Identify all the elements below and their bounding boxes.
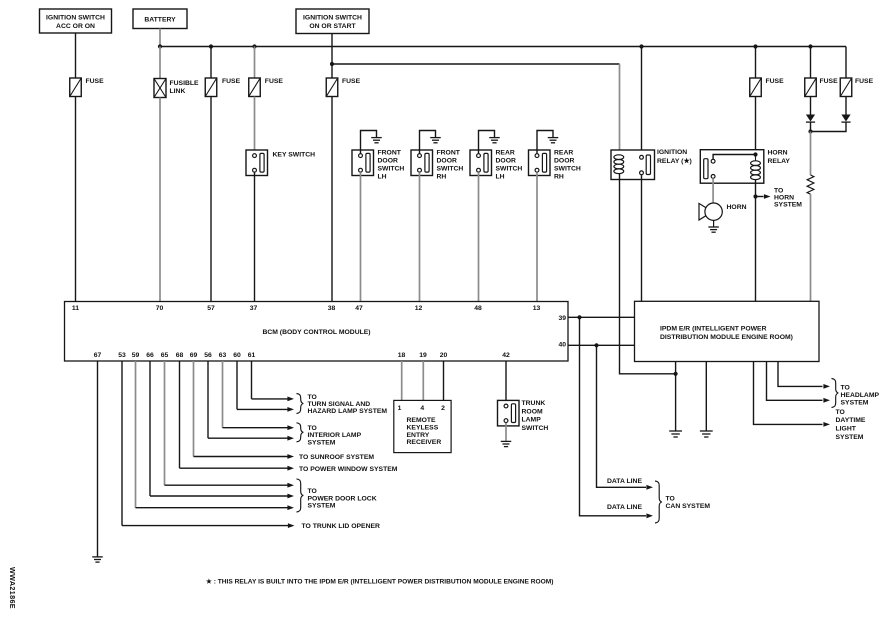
wire fuse F4 to BCM pin 38 [331,97,333,302]
svg-text:SWITCH: SWITCH [437,165,464,172]
svg-text:57: 57 [207,305,215,312]
ignition relay K1 [611,149,692,179]
wire fuse F3 to key switch [254,97,256,154]
svg-text:69: 69 [190,352,198,359]
svg-text:DOOR: DOOR [496,157,516,164]
svg-text:DOOR: DOOR [437,157,457,164]
wire diode D2 to junction [811,122,847,131]
svg-text:SYSTEM: SYSTEM [841,400,869,407]
wire front door switch LH to BCM [360,172,362,301]
ground IPDM 1 [669,431,682,437]
rear door switch RH [529,131,581,181]
svg-text:DOOR: DOOR [554,157,574,164]
module IPDM E/R [635,301,820,361]
module BCM (BODY CONTROL MODULE) [65,302,569,362]
svg-text:LH: LH [496,173,505,180]
svg-text:ON OR START: ON OR START [309,23,356,30]
node TO TURN SIGNAL AND HAZARD LAMP SYSTEM [297,394,388,415]
svg-text:TO: TO [774,188,783,195]
svg-text:HORN: HORN [768,150,788,157]
svg-text:37: 37 [250,305,258,312]
svg-text:IGNITION SWITCH: IGNITION SWITCH [303,15,362,22]
svg-text:FUSIBLE: FUSIBLE [170,80,200,87]
wire bus2 to ignition relay coil [332,63,620,65]
fuse F7 [840,78,873,97]
wire IPDM to ground 2 [705,362,707,431]
svg-text:INTERIOR LAMP: INTERIOR LAMP [308,432,362,439]
wire data line B down [580,317,647,516]
svg-text:66: 66 [146,352,154,359]
svg-text:CAN SYSTEM: CAN SYSTEM [666,503,711,510]
svg-text:FUSE: FUSE [222,78,241,85]
arrow data line A [607,478,653,490]
resistor R1 [807,175,814,194]
ground BCM pin 67 [92,557,103,562]
svg-text:TO: TO [836,409,845,416]
wire fuse F2 to BCM pin 57 [210,97,212,302]
trunk room lamp switch [498,400,549,432]
wire BCM pin 67 to ground [97,361,99,557]
svg-text:DOOR: DOOR [378,157,398,164]
wire BCM pin 66 to door lock [149,361,151,496]
wire ignition relay contact to IPDM [641,175,643,302]
svg-text:TO: TO [308,394,317,401]
svg-text:REAR: REAR [554,149,573,156]
wire fuse F7 to diode D2 [845,97,847,115]
key switch S1 [246,150,315,176]
arrow headlamp high [823,384,830,389]
svg-text:HORN: HORN [774,195,794,202]
svg-text:WWA2186E: WWA2186E [8,567,17,609]
svg-text:SYSTEM: SYSTEM [308,439,336,446]
wire diode D1 to junction [810,122,812,131]
fusible link FL1 [154,79,199,98]
wire ignition relay coil to ground junction [620,174,676,374]
wire bus1 to fuse F3 [254,47,256,79]
svg-text:POWER DOOR LOCK: POWER DOOR LOCK [308,495,377,502]
svg-text:13: 13 [533,305,541,312]
wire BCM pin 61 to turn signal [251,361,253,399]
svg-text:61: 61 [248,352,256,359]
wire BCM pin 69 to sunroof system [193,361,195,457]
module REMOTE KEYLESS ENTRY RECEIVER [394,400,451,452]
svg-text:60: 60 [233,352,241,359]
svg-text:TO TRUNK LID OPENER: TO TRUNK LID OPENER [302,523,381,530]
ground IPDM 2 [700,431,713,437]
svg-text:DAYTIME: DAYTIME [836,417,866,424]
wire IPDM to ground 1 [675,362,677,431]
node IGNITION SWITCH ACC OR ON [40,9,112,33]
arrow headlamp low [823,398,830,403]
svg-text:47: 47 [355,305,363,312]
svg-text:FUSE: FUSE [766,78,785,85]
svg-text:ENTRY: ENTRY [407,432,430,439]
svg-text:HORN: HORN [727,204,747,211]
svg-text:IGNITION: IGNITION [657,149,687,156]
wire horn relay coil to IPDM [755,180,757,302]
svg-text:SYSTEM: SYSTEM [308,502,336,509]
wire BCM pin 42 to trunk switch [505,361,507,404]
horn [699,203,747,232]
wire bus1 end down to fuse F7 [845,47,847,79]
svg-text:TO: TO [841,385,850,392]
wire BCM pin 40 to IPDM [568,344,635,346]
wire BCM pin 39 to IPDM [568,316,635,318]
svg-text:12: 12 [415,305,423,312]
wire bus1 (battery supply rail) [160,46,846,48]
junction bus1/fuse F6 [808,44,812,48]
svg-text:11: 11 [72,305,79,312]
front door switch RH [411,131,463,181]
wire trunk switch to ground [505,423,507,441]
svg-text:2: 2 [441,405,445,412]
wire fuse F1 to BCM pin 11 [75,97,77,302]
svg-text:IPDM E/R (INTELLIGENT POWER: IPDM E/R (INTELLIGENT POWER [660,325,767,332]
junction pin39/data line [577,315,581,319]
fuse F3 [249,78,284,97]
svg-text:BATTERY: BATTERY [144,17,176,24]
wire rear door switch RH to BCM [536,172,538,301]
wire ignition on/start feed [331,34,333,79]
svg-text:LAMP: LAMP [522,417,542,424]
svg-text:TO: TO [308,425,317,432]
svg-text:RH: RH [437,173,447,180]
svg-text:SYSTEM: SYSTEM [836,434,864,441]
wire IPDM to headlamp high [778,362,823,387]
wire BCM pin 53 to trunk lid opener [121,361,123,526]
svg-text:RH: RH [554,173,564,180]
wire BCM pin 68 to power window system [179,361,181,468]
svg-text:SWITCH: SWITCH [522,425,549,432]
svg-text:ROOM: ROOM [522,408,543,415]
wire BCM pin 19 to receiver [422,361,424,400]
svg-text:42: 42 [502,352,510,359]
svg-text:SWITCH: SWITCH [554,165,581,172]
wire bus1 to fusible link [159,47,161,79]
arrow data line B [607,504,653,518]
wire battery to bus [159,29,161,47]
svg-text:TO: TO [308,488,317,495]
node TO HEADLAMP SYSTEM [832,379,880,408]
wire bus1 to fuse F2 [210,47,212,79]
wire fuse F6 to diode D1 [810,97,812,115]
wire rear door switch LH to BCM [478,172,480,301]
wire BCM pin 63 to interior lamp [222,361,224,428]
wire horn relay contact to horn [712,178,714,203]
wire bus1 to ignition relay contact [641,47,643,156]
svg-text:HEADLAMP: HEADLAMP [841,392,880,399]
fuse F2 [205,78,240,97]
svg-text:18: 18 [398,352,406,359]
svg-text:19: 19 [419,352,427,359]
fuse F5 [750,78,784,97]
arrow to daytime light system [823,409,866,441]
svg-text:LIGHT: LIGHT [836,426,857,433]
svg-text:DISTRIBUTION MODULE ENGINE ROO: DISTRIBUTION MODULE ENGINE ROOM) [660,334,793,341]
svg-text:70: 70 [156,305,164,312]
wire resistor R1 to IPDM [810,194,812,301]
svg-text:38: 38 [328,305,336,312]
svg-text:39: 39 [558,315,566,322]
wire bus1 to fuse F6 [810,47,812,79]
svg-text:TO: TO [666,495,675,502]
svg-text:FUSE: FUSE [86,78,105,85]
svg-text:REAR: REAR [496,149,515,156]
svg-text:48: 48 [474,305,482,312]
relay coil feed junction on bus1 [639,44,643,48]
diode D2 [841,115,850,123]
svg-text:FUSE: FUSE [265,78,284,85]
front door switch LH [352,131,404,181]
junction ignition feed / bus2 [330,62,334,66]
svg-text:HAZARD LAMP SYSTEM: HAZARD LAMP SYSTEM [308,408,388,415]
wire BCM pin 60 to turn signal [236,361,238,409]
svg-text:67: 67 [94,352,102,359]
svg-text:TO SUNROOF SYSTEM: TO SUNROOF SYSTEM [299,454,374,461]
junction bus1/fuse F5 [753,44,757,48]
wire front door switch RH to BCM [419,172,421,301]
junction pin40/data line [594,343,598,347]
svg-text:★ : THIS RELAY IS BUILT INTO T: ★ : THIS RELAY IS BUILT INTO THE IPDM E/… [206,577,553,585]
junction to horn system [753,194,757,198]
svg-text:IGNITION SWITCH: IGNITION SWITCH [46,15,105,22]
svg-text:ACC OR ON: ACC OR ON [56,23,95,30]
wire bus1 to fuse F5 [755,47,757,79]
svg-text:FRONT: FRONT [437,149,461,156]
svg-text:LH: LH [378,173,387,180]
wire BCM pin 65 to door lock [164,361,166,485]
svg-text:40: 40 [558,341,566,348]
junction diodes [808,129,812,133]
wire BCM pin 56 to interior lamp [207,361,209,438]
svg-text:FRONT: FRONT [378,149,402,156]
ground trunk switch [501,441,512,446]
svg-text:63: 63 [219,352,227,359]
fuse F4 [326,78,360,97]
svg-text:1: 1 [398,405,402,412]
fuse F6 [805,78,838,97]
svg-text:DATA LINE: DATA LINE [607,504,642,511]
node BATTERY [133,9,187,29]
wire BCM pin 59 to door lock [135,361,137,508]
svg-text:RELAY (★): RELAY (★) [657,157,692,165]
wire BCM pin 20 to receiver [443,361,445,400]
wire IPDM to daytime light system [754,362,823,425]
svg-text:FUSE: FUSE [820,78,839,85]
svg-text:DATA LINE: DATA LINE [607,478,642,485]
svg-text:4: 4 [420,405,424,412]
wire key switch to BCM pin 37 [254,173,256,302]
svg-text:KEYLESS: KEYLESS [407,424,439,431]
svg-text:FUSE: FUSE [342,78,361,85]
junction bus1/fuse F3 [252,44,256,48]
wire junction to resistor R1 [810,132,812,176]
svg-text:TURN SIGNAL AND: TURN SIGNAL AND [308,401,371,408]
svg-text:BCM (BODY CONTROL MODULE): BCM (BODY CONTROL MODULE) [262,329,370,336]
svg-text:SWITCH: SWITCH [378,165,405,172]
svg-text:65: 65 [161,352,169,359]
svg-text:TRUNK: TRUNK [522,400,546,407]
junction bus1/fuse F2 [209,44,213,48]
svg-text:RECEIVER: RECEIVER [407,439,442,446]
diode D1 [806,115,815,123]
wire IPDM to headlamp low [767,362,823,401]
svg-text:59: 59 [132,352,140,359]
svg-text:FUSE: FUSE [855,78,874,85]
svg-text:20: 20 [440,352,448,359]
node TO INTERIOR LAMP SYSTEM [297,423,362,447]
svg-text:56: 56 [204,352,212,359]
svg-text:SWITCH: SWITCH [496,165,523,172]
svg-text:RELAY: RELAY [768,158,791,165]
wire fusible link to BCM pin 70 [159,98,161,302]
wire fuse F5 to horn relay [755,97,757,155]
arrow to horn system [756,188,803,209]
wire ACC feed to fuse [75,33,77,78]
horn relay K2 [700,150,790,184]
fuse F1 (ACC) [70,78,104,97]
node TO POWER DOOR LOCK SYSTEM [297,479,377,512]
svg-text:REMOTE: REMOTE [407,417,437,424]
junction battery/bus1 [158,44,162,48]
wire BCM pin 18 to receiver [401,361,403,400]
svg-text:KEY SWITCH: KEY SWITCH [273,152,316,159]
wire data line A down [597,345,647,487]
svg-text:53: 53 [118,352,126,359]
junction IPDM ground / relay coil [674,372,678,376]
node TO CAN SYSTEM [655,481,710,523]
svg-text:SYSTEM: SYSTEM [774,202,802,209]
svg-text:TO POWER WINDOW SYSTEM: TO POWER WINDOW SYSTEM [299,466,398,473]
svg-text:LINK: LINK [170,88,186,95]
svg-text:68: 68 [176,352,184,359]
node IGNITION SWITCH ON OR START [296,9,369,34]
rear door switch LH [470,131,522,181]
